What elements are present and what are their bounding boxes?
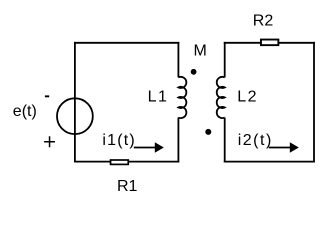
svg-text:i1(t): i1(t) (102, 132, 136, 149)
arrow i2 (269, 142, 299, 153)
svg-text:R2: R2 (253, 13, 274, 30)
svg-text:L2: L2 (237, 88, 258, 105)
coupling dot L1 (191, 69, 197, 75)
wire left loop left side (74, 42, 76, 163)
wire right loop left side upper (224, 42, 226, 78)
inductor L2 (217, 77, 225, 118)
coupling dot L2 (205, 129, 211, 135)
wire right loop left side lower (224, 118, 226, 163)
resistor R2 (261, 40, 278, 46)
wire left loop right side lower (177, 118, 179, 163)
inductor L1 (178, 77, 186, 118)
wire left loop bottom (74, 161, 179, 163)
svg-text:e(t): e(t) (13, 103, 37, 120)
resistor R1 (111, 160, 129, 164)
plus sign of source (44, 136, 55, 147)
wire right loop bottom (224, 161, 315, 163)
voltage source e(t) (57, 98, 93, 134)
svg-text:L1: L1 (148, 88, 169, 105)
wire left loop top (74, 42, 179, 44)
minus sign of source (45, 95, 49, 97)
wire right loop right side (313, 42, 315, 163)
wire right loop top (224, 42, 315, 44)
svg-text:i2(t): i2(t) (238, 132, 273, 149)
wire left loop right side upper (177, 42, 179, 78)
svg-text:M: M (194, 43, 207, 60)
arrow i1 (134, 142, 164, 153)
svg-text:R1: R1 (117, 178, 138, 195)
